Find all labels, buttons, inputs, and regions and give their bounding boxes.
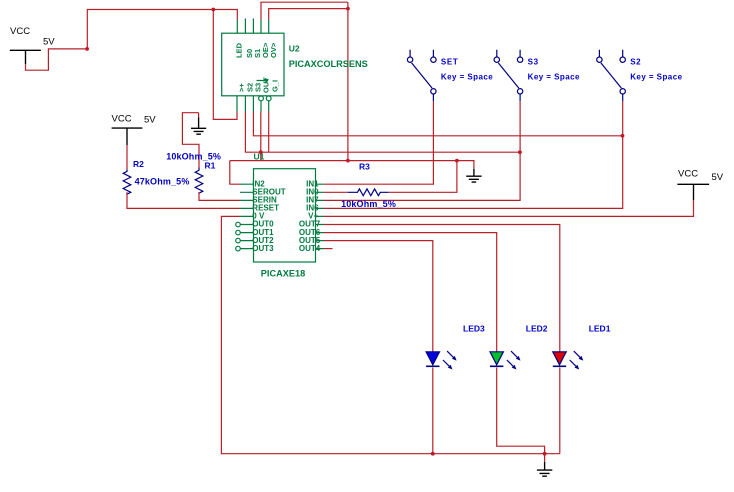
wire U2 pin4 top xyxy=(261,2,348,19)
wire IN2 riser xyxy=(230,161,241,185)
U1 left pins xyxy=(240,184,254,248)
wire R1 to SERIN xyxy=(199,192,241,200)
U2 pin bubble xyxy=(259,96,264,101)
wire S3 to IN7 xyxy=(324,101,520,200)
svg-text:R2: R2 xyxy=(133,159,144,169)
ground GND1 xyxy=(198,113,200,118)
svg-text:OUT3: OUT3 xyxy=(252,244,274,253)
wire LED2 to rail xyxy=(497,368,545,454)
VCC V3 right xyxy=(677,184,709,200)
U1 pin bubble OUT1 xyxy=(236,230,241,235)
svg-text:R3: R3 xyxy=(359,161,370,171)
wire OUT4 stub xyxy=(324,248,333,250)
wire ground stub bottom xyxy=(544,454,546,462)
wire R2 to RESET xyxy=(127,192,241,208)
LED2 green xyxy=(490,351,521,369)
U2 bottom pins xyxy=(237,96,269,112)
wire U2 pin5 top xyxy=(269,9,348,20)
U1 pin bubble OUT0 xyxy=(236,222,241,227)
svg-text:47kOhm_5%: 47kOhm_5% xyxy=(135,176,190,186)
wire VCC1 to U2 xyxy=(26,10,238,71)
wire IN0 to R3 xyxy=(324,191,348,193)
U2 top pins xyxy=(237,19,268,34)
junction xyxy=(85,47,89,51)
svg-text:5V: 5V xyxy=(144,115,156,126)
svg-text:LED3: LED3 xyxy=(463,323,485,333)
ground GND2 xyxy=(466,169,481,182)
svg-text:LED2: LED2 xyxy=(526,323,548,333)
switch SET xyxy=(407,50,436,101)
svg-text:5V: 5V xyxy=(43,37,55,48)
svg-text:LED: LED xyxy=(235,42,244,58)
resistor R3 xyxy=(348,189,389,196)
wire LED1 to rail xyxy=(559,368,561,454)
svg-text:LED1: LED1 xyxy=(589,323,611,333)
wire SET to IN1 xyxy=(324,101,433,184)
wire VCC3 to V+ xyxy=(324,200,694,216)
svg-text:Key = Space: Key = Space xyxy=(630,72,682,81)
svg-text:OV>: OV> xyxy=(269,42,278,58)
junction xyxy=(518,150,522,154)
wire vertical to ground net xyxy=(347,2,349,160)
wire OUT6 to LED2 xyxy=(324,233,497,352)
svg-text:VCC: VCC xyxy=(678,169,698,180)
svg-text:PICAXE18: PICAXE18 xyxy=(261,268,305,278)
junction xyxy=(431,452,435,456)
svg-text:VCC: VCC xyxy=(10,26,30,37)
U2 pin arrow xyxy=(257,79,269,83)
wire U2 pinD down xyxy=(260,112,262,161)
svg-text:R1: R1 xyxy=(205,161,216,171)
U1 right pins xyxy=(316,184,325,248)
wire OUT7 to LED1 xyxy=(324,225,560,352)
svg-text:U1: U1 xyxy=(254,151,265,161)
wire VCC2 to R2 xyxy=(126,145,128,169)
svg-text:OUT4: OUT4 xyxy=(299,244,321,253)
svg-text:10kOhm_5%: 10kOhm_5% xyxy=(166,151,221,161)
wire U2 pinE down xyxy=(268,112,270,153)
svg-text:Key = Space: Key = Space xyxy=(441,72,493,81)
wire OUT5 to LED3 xyxy=(324,241,433,352)
junction xyxy=(346,159,350,163)
resistor R1 xyxy=(195,168,203,194)
wire ground net horizontal xyxy=(230,160,457,162)
svg-text:5V: 5V xyxy=(712,172,724,183)
svg-text:G_I: G_I xyxy=(271,80,280,92)
junction xyxy=(543,452,547,456)
wire 0V to bottom rail xyxy=(221,216,559,453)
switch S3 xyxy=(494,50,523,101)
junction xyxy=(346,7,350,11)
ground GND3 xyxy=(537,462,552,476)
svg-text:S3: S3 xyxy=(528,57,539,66)
wire LED3 to rail xyxy=(432,368,434,454)
svg-text:Key = Space: Key = Space xyxy=(528,72,580,81)
U2 color sensor box xyxy=(222,33,284,96)
svg-text:10kOhm_5%: 10kOhm_5% xyxy=(341,199,396,209)
wire ground branch xyxy=(457,161,474,169)
svg-text:U2: U2 xyxy=(289,44,300,54)
junction xyxy=(621,134,625,138)
svg-text:VCC: VCC xyxy=(112,114,132,125)
resistor R2 xyxy=(123,169,131,194)
LED3 blue xyxy=(426,351,457,369)
U1 pin bubble OUT3 xyxy=(236,246,241,251)
svg-text:SET: SET xyxy=(441,57,459,66)
wire R1 top to GND1 xyxy=(182,113,199,168)
U1 PICAXE18 box xyxy=(254,169,316,262)
wire VCC branch to U2 bottom pin xyxy=(213,10,237,120)
VCC V1 top-left xyxy=(10,50,41,64)
U1 pin bubble OUT2 xyxy=(236,238,241,243)
switch S2 xyxy=(597,50,626,101)
wire S2 to IN6 xyxy=(324,101,623,208)
junction xyxy=(211,8,215,12)
wire U2 pinC to S2 net xyxy=(253,112,622,136)
wire R3 to ground net xyxy=(389,161,457,193)
VCC V2 mid-left xyxy=(112,128,143,145)
wire U2 pinB to S3 net xyxy=(245,112,520,153)
LED1 red xyxy=(553,351,584,369)
junction xyxy=(259,150,263,154)
U2 pin bubble xyxy=(266,96,271,101)
junction xyxy=(455,159,459,163)
svg-text:S2: S2 xyxy=(630,57,641,66)
svg-text:PICAXCOLRSENS: PICAXCOLRSENS xyxy=(289,59,368,69)
